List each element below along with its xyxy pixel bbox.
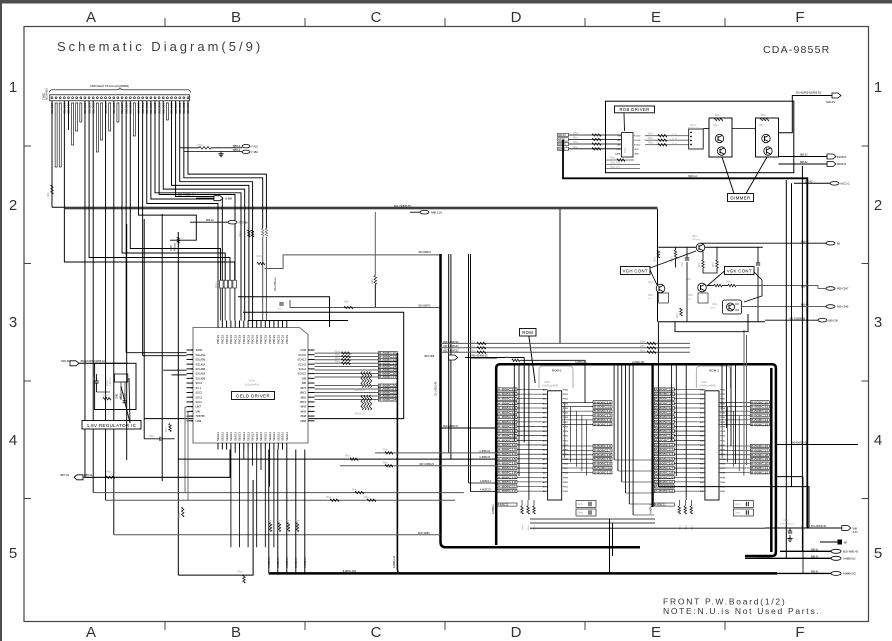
svg-text:R8xx: R8xx <box>699 261 701 267</box>
svg-text:ROM-1: ROM-1 <box>552 369 562 373</box>
svg-text:AVDD: AVDD <box>196 349 203 352</box>
svg-text:A-808C16: A-808C16 <box>498 415 517 419</box>
svg-text:P886: P886 <box>563 417 569 419</box>
svg-text:8-808C10: 8-808C10 <box>594 462 612 466</box>
svg-text:888-41: 888-41 <box>811 571 819 574</box>
svg-text:A-808C10: A-808C10 <box>655 388 674 392</box>
svg-text:GND: GND <box>117 394 119 399</box>
RGB block bottom wires <box>606 158 640 169</box>
svg-text:8-808C14: 8-808C14 <box>594 418 612 422</box>
svg-text:A-808C12: A-808C12 <box>498 397 517 401</box>
thick bus horizontal B2 <box>269 572 777 575</box>
svg-text:A-808C11: A-808C11 <box>655 438 674 442</box>
svg-text:8848: 8848 <box>300 415 306 418</box>
svg-text:P885: P885 <box>720 413 726 415</box>
svg-text:A-808C16: A-808C16 <box>655 415 674 419</box>
ROM-1 outline <box>539 366 573 388</box>
capacitor C821 right <box>757 247 759 263</box>
svg-text:2: 2 <box>874 197 882 214</box>
svg-text:P887: P887 <box>720 422 726 424</box>
svg-text:8-808C10: 8-808C10 <box>751 400 769 404</box>
RGB module box <box>689 129 704 149</box>
svg-text:8882: 8882 <box>300 396 306 399</box>
RGB DRIVER label box <box>615 106 655 113</box>
svg-text:R8xx: R8xx <box>371 278 374 284</box>
standalone mid verticals <box>449 254 471 492</box>
svg-text:A-808C15: A-808C15 <box>655 411 674 415</box>
svg-text:P881: P881 <box>720 440 726 442</box>
svg-text:P882: P882 <box>563 491 569 493</box>
svg-text:P889: P889 <box>563 477 569 479</box>
mid resistors <box>699 247 718 273</box>
ground stub row <box>820 541 838 543</box>
thick bus vertical B3 <box>770 368 773 552</box>
svg-text:P882: P882 <box>720 491 726 493</box>
wire R19XX1 <box>779 163 828 165</box>
svg-text:A-808C18: A-808C18 <box>655 424 674 428</box>
window edge top strip <box>0 0 892 4</box>
svg-text:P883: P883 <box>720 403 726 405</box>
ROM-2 carry boxes <box>733 501 753 508</box>
svg-text:P888: P888 <box>563 473 569 475</box>
resistors on grey pair <box>265 229 268 237</box>
svg-text:CLK: CLK <box>616 149 621 151</box>
wire out row 306 <box>742 306 827 308</box>
svg-text:R8xx: R8xx <box>677 312 679 318</box>
svg-text:8-808C12: 8-808C12 <box>594 470 612 474</box>
svg-text:R LED: R LED <box>634 136 641 138</box>
svg-text:801Y-808C23: 801Y-808C23 <box>419 463 434 466</box>
IC801 right pins <box>298 349 315 423</box>
svg-text:L8xx /R8xxxx: L8xx /R8xxxx <box>275 276 277 291</box>
resistors right of Q812 <box>707 282 819 289</box>
svg-text:R8xx: R8xx <box>470 342 476 344</box>
svg-text:A-808C15: A-808C15 <box>498 457 517 461</box>
svg-text:R8xx: R8xx <box>688 295 694 297</box>
svg-text:P886: P886 <box>563 463 569 465</box>
svg-text:LV88: LV88 <box>196 420 202 423</box>
ROM-1 bottom resistors <box>521 500 536 530</box>
wire k30 to pent row <box>176 101 177 197</box>
wires between ROM-1 and ROM-2 <box>614 365 654 515</box>
svg-text:8-808C15: 8-808C15 <box>594 422 612 426</box>
connector CN801 bracket <box>50 88 191 93</box>
wire to connectors <box>211 147 242 149</box>
svg-text:Y 4BJ: Y 4BJ <box>251 150 259 154</box>
svg-text:P884: P884 <box>720 454 726 456</box>
svg-text:R8xx: R8xx <box>648 295 654 297</box>
svg-text:ATS8: ATS8 <box>170 245 173 251</box>
wires inside regulator box <box>97 382 126 400</box>
svg-text:Carry: Carry <box>734 512 741 515</box>
svg-text:A-808C11: A-808C11 <box>498 438 517 442</box>
svg-text:xRxxx: xRxxx <box>710 308 717 310</box>
svg-text:A-808C12: A-808C12 <box>498 489 517 493</box>
svg-text:P880: P880 <box>563 390 569 392</box>
svg-text:A-8862-17: A-8862-17 <box>268 557 271 568</box>
VGH section main verticals <box>658 209 766 322</box>
svg-text:88X2: 88X2 <box>300 392 306 395</box>
verticals left of ROM-1 body <box>514 365 529 500</box>
ROM-2 body <box>705 391 719 500</box>
RGB output wires with resistors <box>645 134 689 146</box>
svg-text:A-8862-17: A-8862-17 <box>277 557 280 568</box>
svg-text:A-808C13: A-808C13 <box>655 448 674 452</box>
svg-text:VGK CONT: VGK CONT <box>727 269 752 274</box>
svg-text:A-8862-17: A-8862-17 <box>286 557 289 568</box>
svg-text:A-808C12: A-808C12 <box>498 443 517 447</box>
svg-text:A-808C19: A-808C19 <box>655 475 674 479</box>
ROM-1 left pin labels <box>497 388 548 494</box>
svg-text:Q8xx: Q8xx <box>692 236 698 238</box>
svg-text:IC8xx: IC8xx <box>249 379 256 383</box>
ROM input row R07-808 <box>424 355 524 443</box>
svg-text:P883: P883 <box>563 403 569 405</box>
svg-text:P880: P880 <box>563 482 569 484</box>
svg-text:P885: P885 <box>720 459 726 461</box>
svg-text:A-808C15: A-808C15 <box>498 411 517 415</box>
svg-text:8-808C19: 8-808C19 <box>594 457 612 461</box>
wire 801Y-808C11 into ROM-1 <box>441 427 498 429</box>
svg-text:Q8xx: Q8xx <box>712 304 718 306</box>
svg-text:801Y-808C31: 801Y-808C31 <box>443 345 459 348</box>
ROM-1 right pin labels <box>562 400 612 474</box>
svg-text:8-808C16: 8-808C16 <box>751 444 769 448</box>
svg-text:R8xx: R8xx <box>640 350 646 352</box>
svg-text:P885: P885 <box>563 413 569 415</box>
svg-text:N88-42: N88-42 <box>84 474 93 477</box>
svg-text:8-808C12: 8-808C12 <box>751 409 769 413</box>
svg-text:801-42(R05-42)(R05-52): 801-42(R05-42)(R05-52) <box>796 93 822 95</box>
svg-text:A-808C10: A-808C10 <box>498 434 517 438</box>
svg-text:C8xx N.U: C8xx N.U <box>610 167 620 169</box>
svg-text:P888: P888 <box>720 426 726 428</box>
svg-text:R8xx: R8xx <box>648 134 654 136</box>
svg-text:R8xx: R8xx <box>713 261 715 267</box>
svg-text:A-808C15: A-808C15 <box>655 457 674 461</box>
resistor block under Q811 <box>648 293 669 303</box>
svg-text:P880: P880 <box>563 436 569 438</box>
svg-text:FRM KEJ2 7/5.0mm(CQRM96): FRM KEJ2 7/5.0mm(CQRM96) <box>90 84 129 88</box>
svg-text:801-73/805-44: 801-73/805-44 <box>178 194 195 197</box>
svg-text:R8xx: R8xx <box>198 143 205 147</box>
svg-text:8-808C18: 8-808C18 <box>751 453 769 457</box>
wires crossing into ROM-1 lower left <box>178 450 497 492</box>
svg-text:SOLA5A: SOLA5A <box>196 354 206 357</box>
svg-text:G LED: G LED <box>634 140 641 142</box>
svg-text:CDA-9855R: CDA-9855R <box>763 44 830 56</box>
svg-text:R09-C0N8: R09-C0N8 <box>837 306 849 309</box>
svg-text:R8xx: R8xx <box>655 256 657 262</box>
svg-text:8-808C13: 8-808C13 <box>751 414 769 418</box>
svg-text:88X2: 88X2 <box>300 401 306 404</box>
svg-text:V88: V88 <box>302 377 307 380</box>
svg-text:3: 3 <box>9 314 17 331</box>
svg-text:R8xx: R8xx <box>364 497 370 499</box>
svg-text:A-808C17: A-808C17 <box>655 466 674 470</box>
connector row 573 <box>777 572 831 574</box>
VGH pointer lines <box>650 270 658 287</box>
svg-text:A-808C12: A-808C12 <box>655 443 674 447</box>
wire 866-42/R07-80 with connector <box>190 221 228 223</box>
svg-text:A-808C13: A-808C13 <box>480 480 491 483</box>
wire to N0D-9V top right <box>779 96 832 133</box>
wire out row 242 <box>701 242 827 244</box>
svg-text:R8xx: R8xx <box>103 394 109 397</box>
dimmer transistor block 1 <box>709 118 732 157</box>
svg-text:P888: P888 <box>563 426 569 428</box>
grey vertical pair right of ROM-2 <box>743 330 745 465</box>
svg-text:4: 4 <box>874 432 882 449</box>
svg-text:SOLA5B: SOLA5B <box>196 359 206 362</box>
svg-text:C8xx: C8xx <box>754 266 756 272</box>
svg-text:1: 1 <box>874 79 882 96</box>
svg-text:A-808C17: A-808C17 <box>498 420 517 424</box>
svg-text:A-8088-1: A-8088-1 <box>492 503 495 514</box>
svg-text:R8xx: R8xx <box>610 158 616 160</box>
svg-text:UKaFlash8MB: UKaFlash8MB <box>542 385 558 388</box>
svg-text:5: 5 <box>874 545 882 562</box>
ROM pointer label box <box>520 329 537 337</box>
svg-text:8-808C10: 8-808C10 <box>594 400 612 404</box>
svg-text:8842: 8842 <box>300 410 306 413</box>
svg-text:P880: P880 <box>720 436 726 438</box>
svg-text:8-808C13: 8-808C13 <box>594 414 612 418</box>
thick bus vertical B1 <box>441 254 641 547</box>
svg-text:888-52: 888-52 <box>800 154 808 157</box>
svg-text:A-8083-151: A-8083-151 <box>632 361 645 364</box>
svg-text:801-73/805-52: 801-73/805-52 <box>394 204 411 208</box>
svg-text:C8xx: C8xx <box>783 519 789 522</box>
svg-text:SC1X2: SC1X2 <box>298 354 307 357</box>
svg-text:8-808C17: 8-808C17 <box>594 448 612 452</box>
connector CN801 pin labels <box>50 102 190 114</box>
svg-text:E: E <box>651 624 661 641</box>
svg-text:8-8843-152: 8-8843-152 <box>343 569 357 573</box>
svg-text:N0C23: N0C23 <box>558 143 566 146</box>
svg-text:Carry: Carry <box>577 503 584 506</box>
svg-text:801-C1/805-44/866-42: 801-C1/805-44/866-42 <box>81 360 106 363</box>
svg-text:P889: P889 <box>563 431 569 433</box>
svg-text:P882: P882 <box>720 445 726 447</box>
svg-text:8-808C11: 8-808C11 <box>751 466 769 470</box>
svg-text:D: D <box>511 9 522 26</box>
svg-text:R19XX1: R19XX1 <box>837 163 847 166</box>
svg-text:FRONT P.W.Board(1/2): FRONT P.W.Board(1/2) <box>663 597 787 607</box>
svg-text:8-808C17: 8-808C17 <box>379 375 397 379</box>
resistor R815 vertical grey <box>374 212 376 276</box>
svg-text:888-52: 888-52 <box>800 161 808 164</box>
svg-text:RAxxx xx: RAxxx xx <box>355 412 366 415</box>
long wire VGH box top <box>65 208 658 210</box>
svg-text:801Y-8881-43: 801Y-8881-43 <box>843 551 859 554</box>
svg-text:/R8xxxx: /R8xxxx <box>175 242 177 251</box>
svg-text:P882: P882 <box>563 399 569 401</box>
svg-text:8-808C17: 8-808C17 <box>751 448 769 452</box>
ROM-1 body pin names right <box>563 390 569 494</box>
rows under ROM bodies <box>530 519 765 528</box>
svg-text:P889: P889 <box>720 431 726 433</box>
svg-text:NOTE:N.U.is Not Used Parts.: NOTE:N.U.is Not Used Parts. <box>663 606 820 616</box>
svg-text:A-8888-012: A-8888-012 <box>757 556 770 559</box>
svg-text:8842: 8842 <box>300 406 306 409</box>
svg-text:Carry: Carry <box>734 503 741 506</box>
svg-text:P881: P881 <box>563 487 569 489</box>
svg-text:A-8888-012: A-8888-012 <box>843 558 856 561</box>
svg-text:888: 888 <box>302 382 307 385</box>
wire 801-73/805-44 with connector <box>177 196 214 198</box>
svg-text:C: C <box>371 624 382 641</box>
svg-text:8-808C11: 8-808C11 <box>751 405 769 409</box>
long verticals right side <box>610 166 803 573</box>
svg-text:A-808C19: A-808C19 <box>498 475 517 479</box>
svg-text:V888: V888 <box>300 420 306 423</box>
svg-text:P884: P884 <box>563 454 569 456</box>
svg-text:A-808C13: A-808C13 <box>498 448 517 452</box>
VGK CONT label box <box>725 267 755 275</box>
wire k21 L-route <box>139 101 197 240</box>
svg-text:N0C13: N0C13 <box>558 134 566 137</box>
capacitor C811 <box>123 400 127 402</box>
svg-text:R8xx: R8xx <box>335 351 341 353</box>
ROM-2 data bus verticals <box>722 402 744 475</box>
svg-text:8-808C11: 8-808C11 <box>594 405 612 409</box>
svg-text:R8xx: R8xx <box>383 462 389 464</box>
svg-text:R8xx: R8xx <box>335 358 341 360</box>
svg-text:P887: P887 <box>563 422 569 424</box>
svg-text:SOLA5B: SOLA5B <box>196 368 206 371</box>
svg-text:889-C08: 889-C08 <box>829 319 839 322</box>
svg-text:R8xx: R8xx <box>573 133 579 135</box>
svg-text:ROM-2: ROM-2 <box>709 369 719 373</box>
svg-text:8-808C18: 8-808C18 <box>594 453 612 457</box>
svg-text:A-808C18: A-808C18 <box>498 471 517 475</box>
svg-text:SOC3: SOC3 <box>196 396 203 399</box>
verticals from GELD bottom to thick bus 2 <box>268 450 307 574</box>
svg-text:A-808C15: A-808C15 <box>479 456 490 459</box>
svg-text:A: A <box>86 624 96 641</box>
svg-text:A-808C14: A-808C14 <box>498 452 517 456</box>
thin verticals to connector rows <box>803 477 809 574</box>
svg-text:R8xx: R8xx <box>573 142 579 144</box>
svg-text:A-808C12: A-808C12 <box>655 504 666 507</box>
svg-text:A-808C16: A-808C16 <box>498 461 517 465</box>
wire out row 444 <box>776 444 858 446</box>
svg-text:A-808C12: A-808C12 <box>655 489 674 493</box>
svg-text:SOLA5A: SOLA5A <box>196 373 206 376</box>
VGH bottom loop <box>675 314 748 332</box>
svg-text:SCHC2: SCHC2 <box>298 359 307 362</box>
svg-text:A-808C10: A-808C10 <box>655 434 674 438</box>
svg-text:A-808C18: A-808C18 <box>498 424 517 428</box>
svg-text:801-80872: 801-80872 <box>419 305 432 308</box>
connector CN801 pin row box <box>50 95 190 101</box>
ROM-1 bottom label <box>497 503 517 506</box>
svg-text:C8xx: C8xx <box>149 435 155 438</box>
connector row 551 <box>780 550 831 552</box>
left tall loop wires <box>127 214 253 575</box>
svg-text:2: 2 <box>9 197 17 214</box>
IC803 pin names <box>615 136 641 156</box>
ROM-1 carry boxes <box>576 501 596 508</box>
svg-text:VDD: VDD <box>634 149 639 151</box>
row tick marks <box>24 146 869 499</box>
svg-text:P883: P883 <box>720 450 726 452</box>
svg-text:N 888: N 888 <box>225 197 232 201</box>
opto Q813 box <box>723 300 742 314</box>
svg-text:8-808C12: 8-808C12 <box>594 409 612 413</box>
wire out row 320 <box>765 319 818 321</box>
resistor R810 on pin0 wire <box>51 185 54 194</box>
svg-text:A-808C16: A-808C16 <box>655 461 674 465</box>
svg-text:A-8862-17: A-8862-17 <box>304 557 307 568</box>
RGB label pointer <box>623 113 626 131</box>
svg-text:P881: P881 <box>720 394 726 396</box>
svg-text:A-808C13: A-808C13 <box>498 401 517 405</box>
grey wire 801-808C0 <box>265 255 441 269</box>
svg-text:R8xx: R8xx <box>648 143 654 145</box>
svg-text:Schematic Diagram(5/9): Schematic Diagram(5/9) <box>57 39 263 54</box>
wires to IC801 left pins <box>126 353 188 501</box>
svg-text:N0C11: N0C11 <box>558 139 566 142</box>
vertical drop x560 <box>559 209 561 344</box>
svg-text:8-8888-XX2: 8-8888-XX2 <box>843 573 856 576</box>
wires staircase to resistor pack <box>64 101 235 321</box>
svg-text:P881: P881 <box>563 440 569 442</box>
svg-text:R8xx: R8xx <box>166 426 168 432</box>
svg-text:P884: P884 <box>720 408 726 410</box>
svg-text:R8xx: R8xx <box>352 489 358 491</box>
svg-text:A-808C17: A-808C17 <box>498 466 517 470</box>
thick wire N0C1-C <box>563 140 807 529</box>
ROM-2 left pin labels <box>654 388 705 494</box>
connector N88 2.2V <box>420 210 429 214</box>
ROM-1 data bus verticals <box>565 402 587 475</box>
svg-text:R8xx: R8xx <box>573 138 579 140</box>
svg-text:SOLA5B: SOLA5B <box>196 377 206 380</box>
verticals from GELD bottom to bus <box>231 450 274 548</box>
resistor R834 vertical <box>181 507 184 517</box>
svg-text:R8xx: R8xx <box>672 256 674 262</box>
ROM-2 right pin labels <box>719 400 769 474</box>
svg-text:A: A <box>86 9 96 26</box>
ROM pointer line <box>529 336 535 383</box>
IC801 bottom pins <box>216 432 289 450</box>
grey wire 801-80872 <box>290 300 441 308</box>
svg-text:D: D <box>511 624 522 641</box>
svg-text:R8xx: R8xx <box>257 255 263 258</box>
svg-text:R8xxx: R8xxx <box>216 281 218 288</box>
svg-text:8-808C19: 8-808C19 <box>751 457 769 461</box>
long wire 801-73/805-52 <box>52 206 658 208</box>
svg-text:P880: P880 <box>720 482 726 484</box>
svg-text:N0C21: N0C21 <box>558 148 566 151</box>
svg-text:A-808C18: A-808C18 <box>655 471 674 475</box>
svg-text:R8xx: R8xx <box>573 147 579 149</box>
svg-text:801Y-808C11: 801Y-808C11 <box>443 425 459 428</box>
DIMMER label box <box>728 194 754 202</box>
svg-text:801-45/806-45: 801-45/806-45 <box>811 526 827 528</box>
connector CN801 pin circles <box>51 97 189 99</box>
svg-text:TR8T88: TR8T88 <box>196 415 206 418</box>
IC801 left pins <box>187 349 206 423</box>
svg-text:SC 1: SC 1 <box>196 387 202 390</box>
svg-text:8-808C16: 8-808C16 <box>594 444 612 448</box>
svg-text:R8xx: R8xx <box>335 355 341 357</box>
svg-text:N0C1-C: N0C1-C <box>841 183 850 186</box>
svg-text:Y 4L5: Y 4L5 <box>251 145 258 149</box>
svg-text:UKaFlash8MB: UKaFlash8MB <box>699 385 715 388</box>
